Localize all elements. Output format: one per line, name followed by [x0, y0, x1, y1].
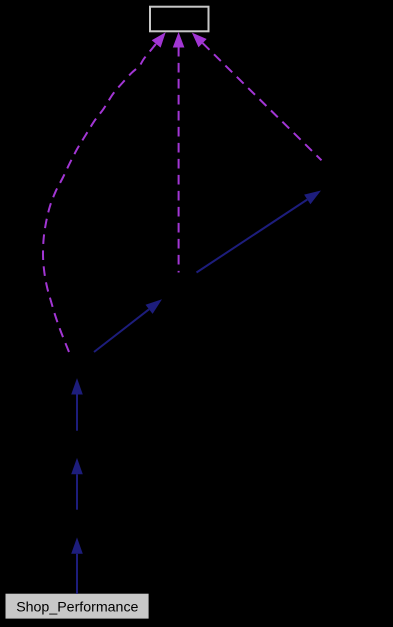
- svg-text:Shop_Performance: Shop_Performance: [16, 600, 138, 616]
